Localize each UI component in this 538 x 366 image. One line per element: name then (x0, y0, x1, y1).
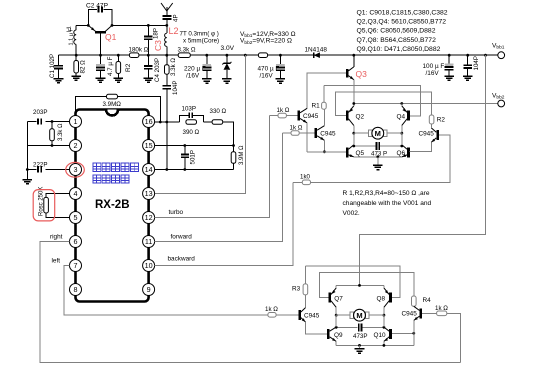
node Q1 collector (111, 24, 114, 27)
capacitor C2 (86, 3, 112, 26)
node 100µF (448, 54, 451, 57)
svg-text:4P: 4P (172, 14, 179, 22)
svg-text:3.3k Ω: 3.3k Ω (58, 123, 64, 141)
node 104P right (466, 54, 469, 57)
node L1 bottom (75, 54, 78, 57)
resistor Rosc 250K (39, 187, 70, 218)
svg-text:1k Ω: 1k Ω (435, 305, 448, 312)
svg-text:backward: backward (168, 256, 196, 263)
node 222P rail (26, 168, 29, 171)
label Vbb note (240, 31, 296, 46)
antenna (161, 3, 173, 15)
node L2 bottom (165, 54, 168, 57)
resistor 3.9MΩ top (76, 94, 161, 122)
transistor C945 right bridge2 (402, 306, 421, 321)
wire C945 lower collector (323, 109, 325, 126)
wire C945 b2left emitter (306, 322, 328, 334)
capacitor 473P bridge2 (335, 323, 385, 340)
svg-text:R 1,R2,R3,R4=80~150 Ω ,are: R 1,R2,R3,R4=80~150 Ω ,are (343, 190, 430, 197)
resistor 1k0 backward (293, 135, 450, 185)
label forward (171, 234, 193, 241)
svg-text:3.3k Ω: 3.3k Ω (170, 58, 177, 76)
wire emitter rail (307, 151, 346, 153)
svg-text:C945: C945 (419, 131, 435, 138)
node Q10 base junction (412, 332, 415, 335)
svg-text:R1: R1 (312, 103, 321, 110)
label right (50, 234, 63, 241)
svg-text:R4: R4 (423, 297, 432, 304)
resistor R2 (116, 55, 132, 78)
capacitor 470µF (258, 55, 285, 79)
wire Q6 collector (401, 133, 403, 145)
svg-text:10: 10 (145, 261, 153, 270)
svg-text:1.1 µ F: 1.1 µ F (69, 27, 75, 45)
resistor 1kΩ pin6 (422, 305, 460, 362)
wire left rail (26, 122, 28, 180)
ground under 100µF (444, 76, 454, 80)
svg-text:14: 14 (145, 165, 153, 174)
wire turbo (154, 116, 269, 218)
wire Q4 emitter (401, 104, 403, 106)
svg-text:R3: R3 (292, 285, 301, 292)
transistor Q5 (347, 145, 364, 158)
node bridge2 supply tap (484, 54, 487, 57)
wire bridge2 bottom rail (336, 344, 414, 346)
wire Q7 emitter (335, 285, 337, 288)
svg-text:Q8: Q8 (377, 295, 386, 302)
svg-text:turbo: turbo (169, 209, 184, 216)
svg-text:Q2,Q3,Q4: 5610,C8550,B772: Q2,Q3,Q4: 5610,C8550,B772 (357, 19, 447, 26)
transistor C945 upper-left (299, 108, 319, 124)
node antenna (165, 24, 168, 27)
transistor Q6 (397, 145, 409, 158)
node pin14 104P (165, 168, 168, 171)
svg-text:104P: 104P (473, 56, 480, 70)
svg-text:501P: 501P (189, 150, 196, 164)
wire pin3 left (27, 169, 69, 171)
wire C945 right collector (430, 124, 432, 128)
svg-text:Q1: C9018,C1815,C380,C382: Q1: C9018,C1815,C380,C382 (357, 10, 448, 17)
node 470µF (279, 54, 282, 57)
svg-text:R2: R2 (437, 116, 446, 123)
svg-text:4: 4 (74, 189, 78, 198)
svg-text:Q1: Q1 (105, 32, 117, 42)
svg-text:Q9: Q9 (334, 332, 343, 339)
IC U1 RX-2B body (76, 110, 149, 302)
wire C945 upper emitter (306, 123, 308, 152)
svg-text:3.9M Ω: 3.9M Ω (239, 145, 245, 165)
svg-text:Q3: Q3 (356, 69, 368, 79)
svg-text:Q10: Q10 (374, 332, 387, 339)
wire cross A2 (R3 to Q8 base) (305, 266, 400, 298)
transistor Q10 (374, 327, 391, 342)
wire pin13 to rail (154, 55, 245, 193)
svg-text:5: 5 (74, 213, 78, 222)
node C3/C4 rail (147, 54, 150, 57)
wire main supply rail (59, 54, 499, 56)
terminal Vbb1 (492, 43, 505, 59)
resistor 330Ω (210, 108, 227, 124)
capacitor 100µF (423, 55, 454, 77)
node Q3 rail (352, 54, 355, 57)
svg-text:16: 16 (145, 117, 153, 126)
ground under R2 (114, 78, 124, 82)
capacitor 104P left (163, 74, 180, 122)
ground under 82Ω (71, 76, 81, 80)
node motor2 left (335, 314, 338, 317)
node 220µF (205, 54, 208, 57)
wire bridge2 top rail (336, 284, 384, 286)
ground under 220µF (202, 79, 212, 83)
svg-text:6: 6 (74, 237, 78, 246)
resistor 1kΩ forward (282, 125, 314, 136)
svg-text:/16V: /16V (426, 70, 440, 77)
svg-text:9: 9 (147, 285, 151, 294)
node 3.3k top (51, 120, 54, 123)
ground under C4 (144, 78, 154, 82)
svg-text:470 µ F: 470 µ F (258, 65, 280, 72)
node 3.9M vert top (232, 144, 235, 147)
wire pin6 path (40, 242, 460, 363)
label backward (168, 256, 196, 263)
ground bridge1 (373, 165, 383, 169)
capacitor C3 18P (144, 25, 163, 55)
resistor R3 (292, 266, 308, 308)
transistor Q1 (88, 25, 116, 55)
node bridge2 ground (358, 344, 361, 347)
wire Q3 emitter (353, 80, 355, 104)
wire pin1 left (27, 121, 69, 123)
svg-text:Q5: Q5 (356, 150, 365, 157)
wire pin16 (154, 121, 179, 123)
capacitor 103P / resistor 390Ω parallel (180, 105, 204, 136)
wire bridge1 ground stub (377, 157, 379, 166)
resistor 1kΩ turbo (270, 107, 298, 118)
svg-text:C945: C945 (402, 311, 418, 318)
zener diode (222, 55, 231, 79)
wire C945 right emitter (410, 142, 432, 151)
wire pin16 to 330 (203, 121, 212, 123)
wire bridge2 supply (360, 55, 486, 285)
ground under 4.7µF (96, 78, 106, 82)
svg-text:M: M (356, 311, 362, 320)
svg-text:15: 15 (145, 141, 153, 150)
resistor R1 (312, 86, 327, 110)
svg-text:C945: C945 (304, 312, 320, 319)
svg-text:1k Ω: 1k Ω (277, 107, 290, 114)
node Q10 emitter rail (383, 344, 386, 347)
node motor1 right (400, 132, 403, 135)
wire Q5 collector (353, 133, 355, 145)
node 501P top (183, 144, 186, 147)
svg-text:C945: C945 (303, 113, 319, 120)
inductor L2 (165, 25, 179, 55)
node emitter rail (323, 150, 326, 153)
svg-text:11: 11 (145, 237, 152, 246)
label 3.0V (221, 45, 235, 52)
resistor R2 (429, 115, 445, 124)
wire 330 corner (223, 122, 234, 146)
node zener (226, 54, 229, 57)
svg-text:RX-2B: RX-2B (95, 199, 130, 211)
resistor 3.9MΩ vertical (231, 145, 245, 170)
svg-text:Q5,Q6: C8050,5609,D882: Q5,Q6: C8050,5609,D882 (357, 28, 436, 35)
transistor C945 lower-left (316, 126, 336, 142)
ground under 470µF (276, 79, 286, 83)
capacitor C1 102P (49, 54, 63, 79)
ground under C1 (54, 79, 64, 83)
node Q4 emitter rail (400, 102, 403, 105)
wire bridge1 bottom rail (354, 156, 402, 158)
highlight pin3 ellipse (66, 162, 85, 177)
wire top interconnect right (Q1 collector to antenna node) (112, 24, 167, 26)
wire pin14 (154, 169, 233, 171)
svg-text:100 µ F: 100 µ F (423, 63, 445, 70)
svg-text:R2: R2 (125, 63, 132, 72)
svg-text:180k Ω: 180k Ω (129, 46, 149, 53)
svg-text:Rosc 250K: Rosc 250K (39, 187, 45, 216)
svg-text:203P: 203P (33, 109, 47, 116)
resistor R4 (412, 296, 432, 306)
svg-text:changeable with the V001 and: changeable with the V001 and (343, 200, 432, 207)
transistor C945 left bridge2 (300, 308, 320, 323)
svg-text:/16V: /16V (260, 72, 274, 79)
svg-text:Q2: Q2 (356, 113, 365, 120)
wire Q10 emitter (383, 341, 385, 345)
inductor L1 (67, 25, 77, 55)
svg-text:1k0: 1k0 (300, 173, 311, 180)
label signal check note (Japanese) (93, 163, 139, 183)
svg-text:390 Ω: 390 Ω (183, 129, 200, 136)
wire bridge2 ground stub (359, 345, 361, 349)
svg-text:7T 0.3mm( φ ): 7T 0.3mm( φ ) (180, 31, 219, 38)
svg-text:8: 8 (74, 285, 78, 294)
wire Q3 base (307, 73, 346, 108)
node bridge1 ground (376, 155, 379, 158)
wire Q10 collector (383, 315, 385, 327)
wire Q9 collector (335, 315, 337, 327)
node R2 top (117, 54, 120, 57)
svg-text:220 µ F: 220 µ F (184, 65, 206, 72)
node 3.9M to pin16 (159, 121, 162, 124)
wire Q4 collector (401, 125, 403, 133)
svg-text:82 Ω: 82 Ω (80, 60, 87, 74)
node pin14 501P (183, 168, 186, 171)
svg-text:103P: 103P (182, 105, 196, 112)
diode 1N4148 (305, 47, 328, 59)
wire pin2 left (27, 145, 69, 147)
wire Q9 emitter (335, 341, 337, 345)
resistor R dropping (258, 53, 267, 58)
transistor Q2 (347, 106, 364, 126)
svg-text:C1 102P: C1 102P (49, 54, 56, 78)
transistor C945 right bridge1 (419, 128, 438, 143)
wire Vbb2 rail (354, 103, 498, 105)
wire cross B2 (Q7 base to R4) (320, 273, 414, 298)
svg-text:C945: C945 (320, 131, 336, 138)
svg-text:Q6: Q6 (397, 150, 406, 157)
svg-text:4.7 µ F: 4.7 µ F (107, 56, 114, 76)
capacitor 4P (162, 14, 179, 25)
label RX-2B (95, 199, 130, 211)
label transistor list (357, 10, 448, 53)
terminal Vbb2 (492, 93, 505, 107)
wire Q3 collector (353, 55, 355, 67)
svg-text:V002.: V002. (343, 210, 360, 217)
motor M2 (336, 309, 384, 321)
label turbo (169, 209, 184, 216)
svg-text:330 Ω: 330 Ω (210, 108, 227, 115)
ground under 104P right (463, 76, 473, 80)
capacitor 222P (33, 161, 47, 174)
resistor 1kΩ pin7 (265, 306, 298, 317)
svg-text:1N4148: 1N4148 (305, 47, 328, 54)
svg-text:/16V: /16V (186, 72, 200, 79)
wire forward (154, 133, 282, 242)
wire Q8 emitter (383, 285, 385, 288)
svg-text:M: M (375, 129, 381, 138)
node Q1 emitter (87, 24, 90, 27)
svg-text:C4 203P: C4 203P (154, 58, 161, 82)
svg-text:3: 3 (74, 165, 78, 174)
capacitor 4.7µF (96, 55, 114, 78)
resistor 82Ω (74, 55, 87, 76)
svg-text:left: left (52, 258, 61, 265)
wire C945 lower emitter (323, 140, 325, 152)
node bridge2 rail center (358, 284, 361, 287)
svg-text:L2: L2 (169, 26, 179, 36)
svg-text:18P: 18P (153, 28, 160, 39)
resistor 3.3kΩ vertical (165, 55, 178, 76)
svg-text:x 5mm(Core): x 5mm(Core) (183, 38, 219, 45)
node pin13 riser (244, 54, 247, 57)
svg-text:7: 7 (74, 261, 78, 270)
svg-text:13: 13 (145, 189, 153, 198)
node pin16 junction (165, 121, 168, 124)
svg-text:1: 1 (74, 117, 78, 126)
node motor1 left (352, 132, 355, 135)
svg-text:473P: 473P (353, 333, 367, 340)
capacitor 220µF (184, 55, 211, 79)
capacitor 501P (181, 146, 197, 170)
node 3.3k bottom (51, 144, 54, 147)
wire Q10 base (392, 332, 414, 334)
svg-text:Q4: Q4 (397, 113, 406, 120)
ground under zener (222, 79, 232, 83)
highlight Rosc box (33, 190, 55, 221)
wire Q7 collector (335, 307, 337, 315)
capacitor 473P bridge1 (352, 142, 403, 158)
wire pin15 (154, 145, 233, 147)
svg-text:3.0V: 3.0V (221, 45, 235, 52)
transistor Q3 (347, 67, 367, 81)
transistor Q8 (377, 288, 391, 307)
label left (52, 258, 61, 265)
svg-text:Q7: Q7 (334, 295, 343, 302)
svg-text:Q7,Q8: B564,C8550,B772: Q7,Q8: B564,C8550,B772 (357, 37, 437, 44)
ground left rail (23, 180, 33, 184)
node Q1 base (99, 54, 102, 57)
wire cross A (R1 to Q4 base) (324, 86, 420, 116)
resistor 180kΩ (129, 46, 149, 57)
svg-text:1k Ω: 1k Ω (265, 306, 278, 313)
wire top interconnect left (L1 to Q1 emitter) (76, 24, 88, 26)
svg-text:12: 12 (145, 213, 153, 222)
wire Q2 base cross B (336, 92, 432, 116)
svg-text:3.3k Ω: 3.3k Ω (178, 46, 196, 53)
svg-text:C3: C3 (153, 40, 163, 51)
wire C945 b2right emitter (413, 320, 415, 345)
capacitor C4 203P (144, 55, 161, 82)
svg-text:Q9,Q10: D471,C8050,D882: Q9,Q10: D471,C8050,D882 (357, 46, 441, 53)
svg-text:2: 2 (74, 141, 78, 150)
label resistor note (343, 190, 432, 217)
wire Q2 collector (353, 104, 355, 106)
capacitor 203P (33, 109, 47, 126)
IC U1 pins (70, 116, 155, 296)
transistor Q4 (397, 106, 409, 126)
svg-text:forward: forward (171, 234, 193, 241)
wire backward (154, 182, 292, 265)
wire 104P to pin14 (166, 122, 168, 170)
wire Q8 collector (383, 307, 385, 315)
svg-text:C2 47P: C2 47P (86, 3, 109, 10)
svg-text:3.9MΩ: 3.9MΩ (103, 101, 122, 108)
wire Q2 emitter (353, 125, 355, 133)
resistor 3.3kΩ rail (178, 46, 196, 57)
resistor 3.3kΩ pin1-2 (50, 122, 64, 146)
ground bridge2 (355, 349, 365, 353)
transistor Q9 (328, 327, 343, 342)
node motor2 right (383, 314, 386, 317)
label L2 winding (180, 31, 220, 45)
transistor Q7 (330, 288, 344, 307)
motor M1 (354, 127, 402, 139)
node Q2 collector rail (352, 102, 355, 105)
node C3 top (147, 24, 150, 27)
svg-text:222P: 222P (33, 161, 47, 168)
svg-text:104P: 104P (172, 81, 179, 95)
wire pin7 path (64, 266, 268, 315)
svg-text:1k Ω: 1k Ω (290, 125, 303, 132)
capacitor 104P right (463, 55, 480, 76)
wire Q6 base (410, 151, 432, 153)
svg-text:right: right (50, 234, 63, 241)
